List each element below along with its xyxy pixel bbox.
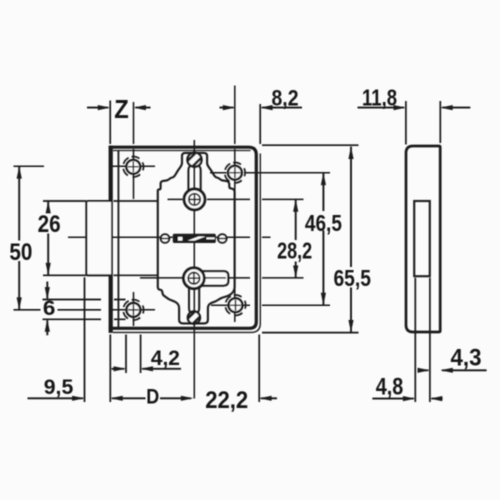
wire top-right hole horizontal centerline (210, 172, 330, 174)
slot white notch (178, 237, 182, 241)
arrowhead 6 top (45, 287, 50, 299)
wire slot horizontal centerline (68, 236, 271, 238)
slot white key silhouette (188, 237, 206, 241)
arrowhead 11,8 left (394, 105, 406, 110)
wire case bottom edge extension right (262, 332, 359, 334)
side view bolt slot (414, 201, 430, 276)
bottom lever arm (202, 271, 228, 285)
wire vertical main centerline (193, 140, 195, 399)
arrowhead 4,2 right (141, 366, 153, 371)
dimension 26 line (47, 201, 49, 275)
wire bottom keyhole horizontal centerline (140, 277, 304, 279)
svg-text:9,5: 9,5 (44, 375, 74, 399)
svg-text:22,2: 22,2 (205, 387, 248, 414)
arrowhead D right (181, 396, 193, 401)
svg-text:46,5: 46,5 (305, 210, 342, 236)
svg-text:28,2: 28,2 (277, 237, 312, 263)
dimension 65,5 line (350, 147, 352, 333)
arrowhead 9,5 right (72, 396, 84, 401)
lock case left faceplate edge (109, 146, 113, 333)
bolt protruding left (86, 201, 111, 275)
dimension 8,2 line (220, 107, 303, 109)
arrowhead 4,3 left (418, 368, 430, 373)
faceplate inner fold line (117, 150, 119, 328)
svg-text:4,8: 4,8 (376, 375, 404, 401)
dimension 9,5 line (28, 397, 84, 399)
arrowhead 4,8 left (403, 396, 415, 401)
wire 11,8 right extension (439, 101, 441, 143)
wire case top edge extension right (262, 144, 359, 146)
bottom keyhole hub (184, 268, 205, 289)
wire bottom-right hole horizontal centerline (211, 304, 330, 306)
arrowhead 46,5 top (321, 173, 326, 185)
mounting hole bottom-right (224, 293, 248, 317)
arrowhead 28,2 top (293, 199, 298, 211)
mounting hole bottom-left (122, 298, 146, 322)
bottom lever stem (189, 287, 199, 313)
top keyhole hub (184, 189, 205, 210)
svg-text:6: 6 (43, 297, 56, 320)
slot screw right (218, 234, 227, 243)
arrowhead 26 top (46, 201, 51, 213)
arrowhead 6 bottom (45, 319, 50, 331)
arrowhead 8,2 left (223, 105, 235, 110)
dimension Z line (87, 107, 151, 109)
arrowhead 50 bottom (17, 297, 22, 309)
wire top-left hole horizontal centerline (14, 165, 156, 167)
wire right holes vertical centerline (234, 86, 236, 323)
wire bolt bottom extension left (43, 274, 86, 276)
dimension 4,8 lines (372, 398, 442, 400)
arrowhead 65,5 top (348, 147, 353, 159)
wire 6-dim top reference line (43, 299, 126, 301)
lock case lid edge line (top inner) (113, 150, 251, 152)
wire 50-dim bottom reference (hole centerline) (14, 309, 102, 311)
arrowhead 26 bottom (46, 263, 51, 275)
dimension 50 line (18, 166, 20, 309)
arrowhead 4,8 right (430, 396, 442, 401)
mounting hole top-left (121, 155, 145, 179)
dimension 6 arrows tails (46, 282, 48, 336)
arrowhead 50 top (17, 166, 22, 178)
dimension 28,2 line (295, 200, 297, 278)
arrowhead 65,5 bottom (348, 320, 353, 332)
wire 6-dim bottom reference line (43, 318, 126, 320)
svg-text:4,2: 4,2 (151, 346, 180, 370)
top screw (hatched) (187, 153, 201, 167)
arrowhead 4,3 right (440, 368, 452, 373)
slot white slit right (207, 237, 215, 239)
svg-text:11,8: 11,8 (362, 85, 397, 111)
dimension 11,8 line (358, 107, 471, 109)
dimension 4,3 lines (418, 369, 487, 371)
wire 4,2 left extension (125, 335, 127, 374)
mechanism plate contour (158, 153, 235, 324)
svg-text:D: D (146, 386, 159, 409)
side view body (406, 146, 440, 332)
svg-text:Z: Z (114, 96, 129, 124)
arrowhead 11,8 right (440, 105, 452, 110)
dimension 46,5 line (322, 173, 324, 306)
wire 4,2 right extension (140, 335, 142, 374)
arrowhead Z right (134, 105, 146, 110)
svg-text:65,5: 65,5 (333, 265, 371, 291)
arrowhead Z left (98, 105, 110, 110)
lock case main thick outline (109, 147, 256, 328)
svg-text:26: 26 (38, 211, 61, 238)
wire 11,8 left extension (405, 101, 407, 145)
svg-text:4,3: 4,3 (451, 346, 482, 372)
arrowhead 8,2 right (260, 105, 272, 110)
wire bolt top extension left (43, 200, 86, 202)
dimension D line (112, 397, 191, 399)
wire 4,8 extensions below side view (415, 278, 430, 402)
arrowhead 22,2 right (259, 396, 271, 401)
slot screw left (161, 234, 170, 243)
bottom screw (hatched) (188, 311, 200, 323)
arrowhead D left (110, 396, 122, 401)
svg-text:50: 50 (9, 239, 32, 266)
wire left holes vertical centerline (133, 102, 135, 326)
dimension 4,2 lines (112, 368, 181, 370)
svg-text:8,2: 8,2 (272, 86, 299, 111)
bolt hidden lines inside case (114, 201, 158, 275)
wire D left extension (case left edge down) (109, 335, 111, 403)
lock case outer thin edge (right and bottom) (113, 154, 260, 333)
arrowhead 46,5 bottom (321, 293, 326, 305)
dimension 22,2 tail (261, 397, 277, 399)
wire 8,2 right extension (case right edge up) (259, 104, 261, 144)
mounting hole top-right (223, 161, 247, 185)
center slot (black) (173, 234, 216, 243)
arrowhead 28,2 bottom (293, 266, 298, 278)
arrowhead 4,2 left (114, 366, 126, 371)
wire 22,2 right extension (case right edge down) (258, 335, 260, 403)
wire top keyhole horizontal centerline (168, 198, 304, 200)
top lever stem (188, 166, 200, 191)
wire Z left extension (case edge up) (109, 101, 111, 145)
wire 9,5 left extension (bolt edge down) (84, 277, 86, 402)
wire bottom-left hole horizontal centerline (112, 309, 155, 311)
